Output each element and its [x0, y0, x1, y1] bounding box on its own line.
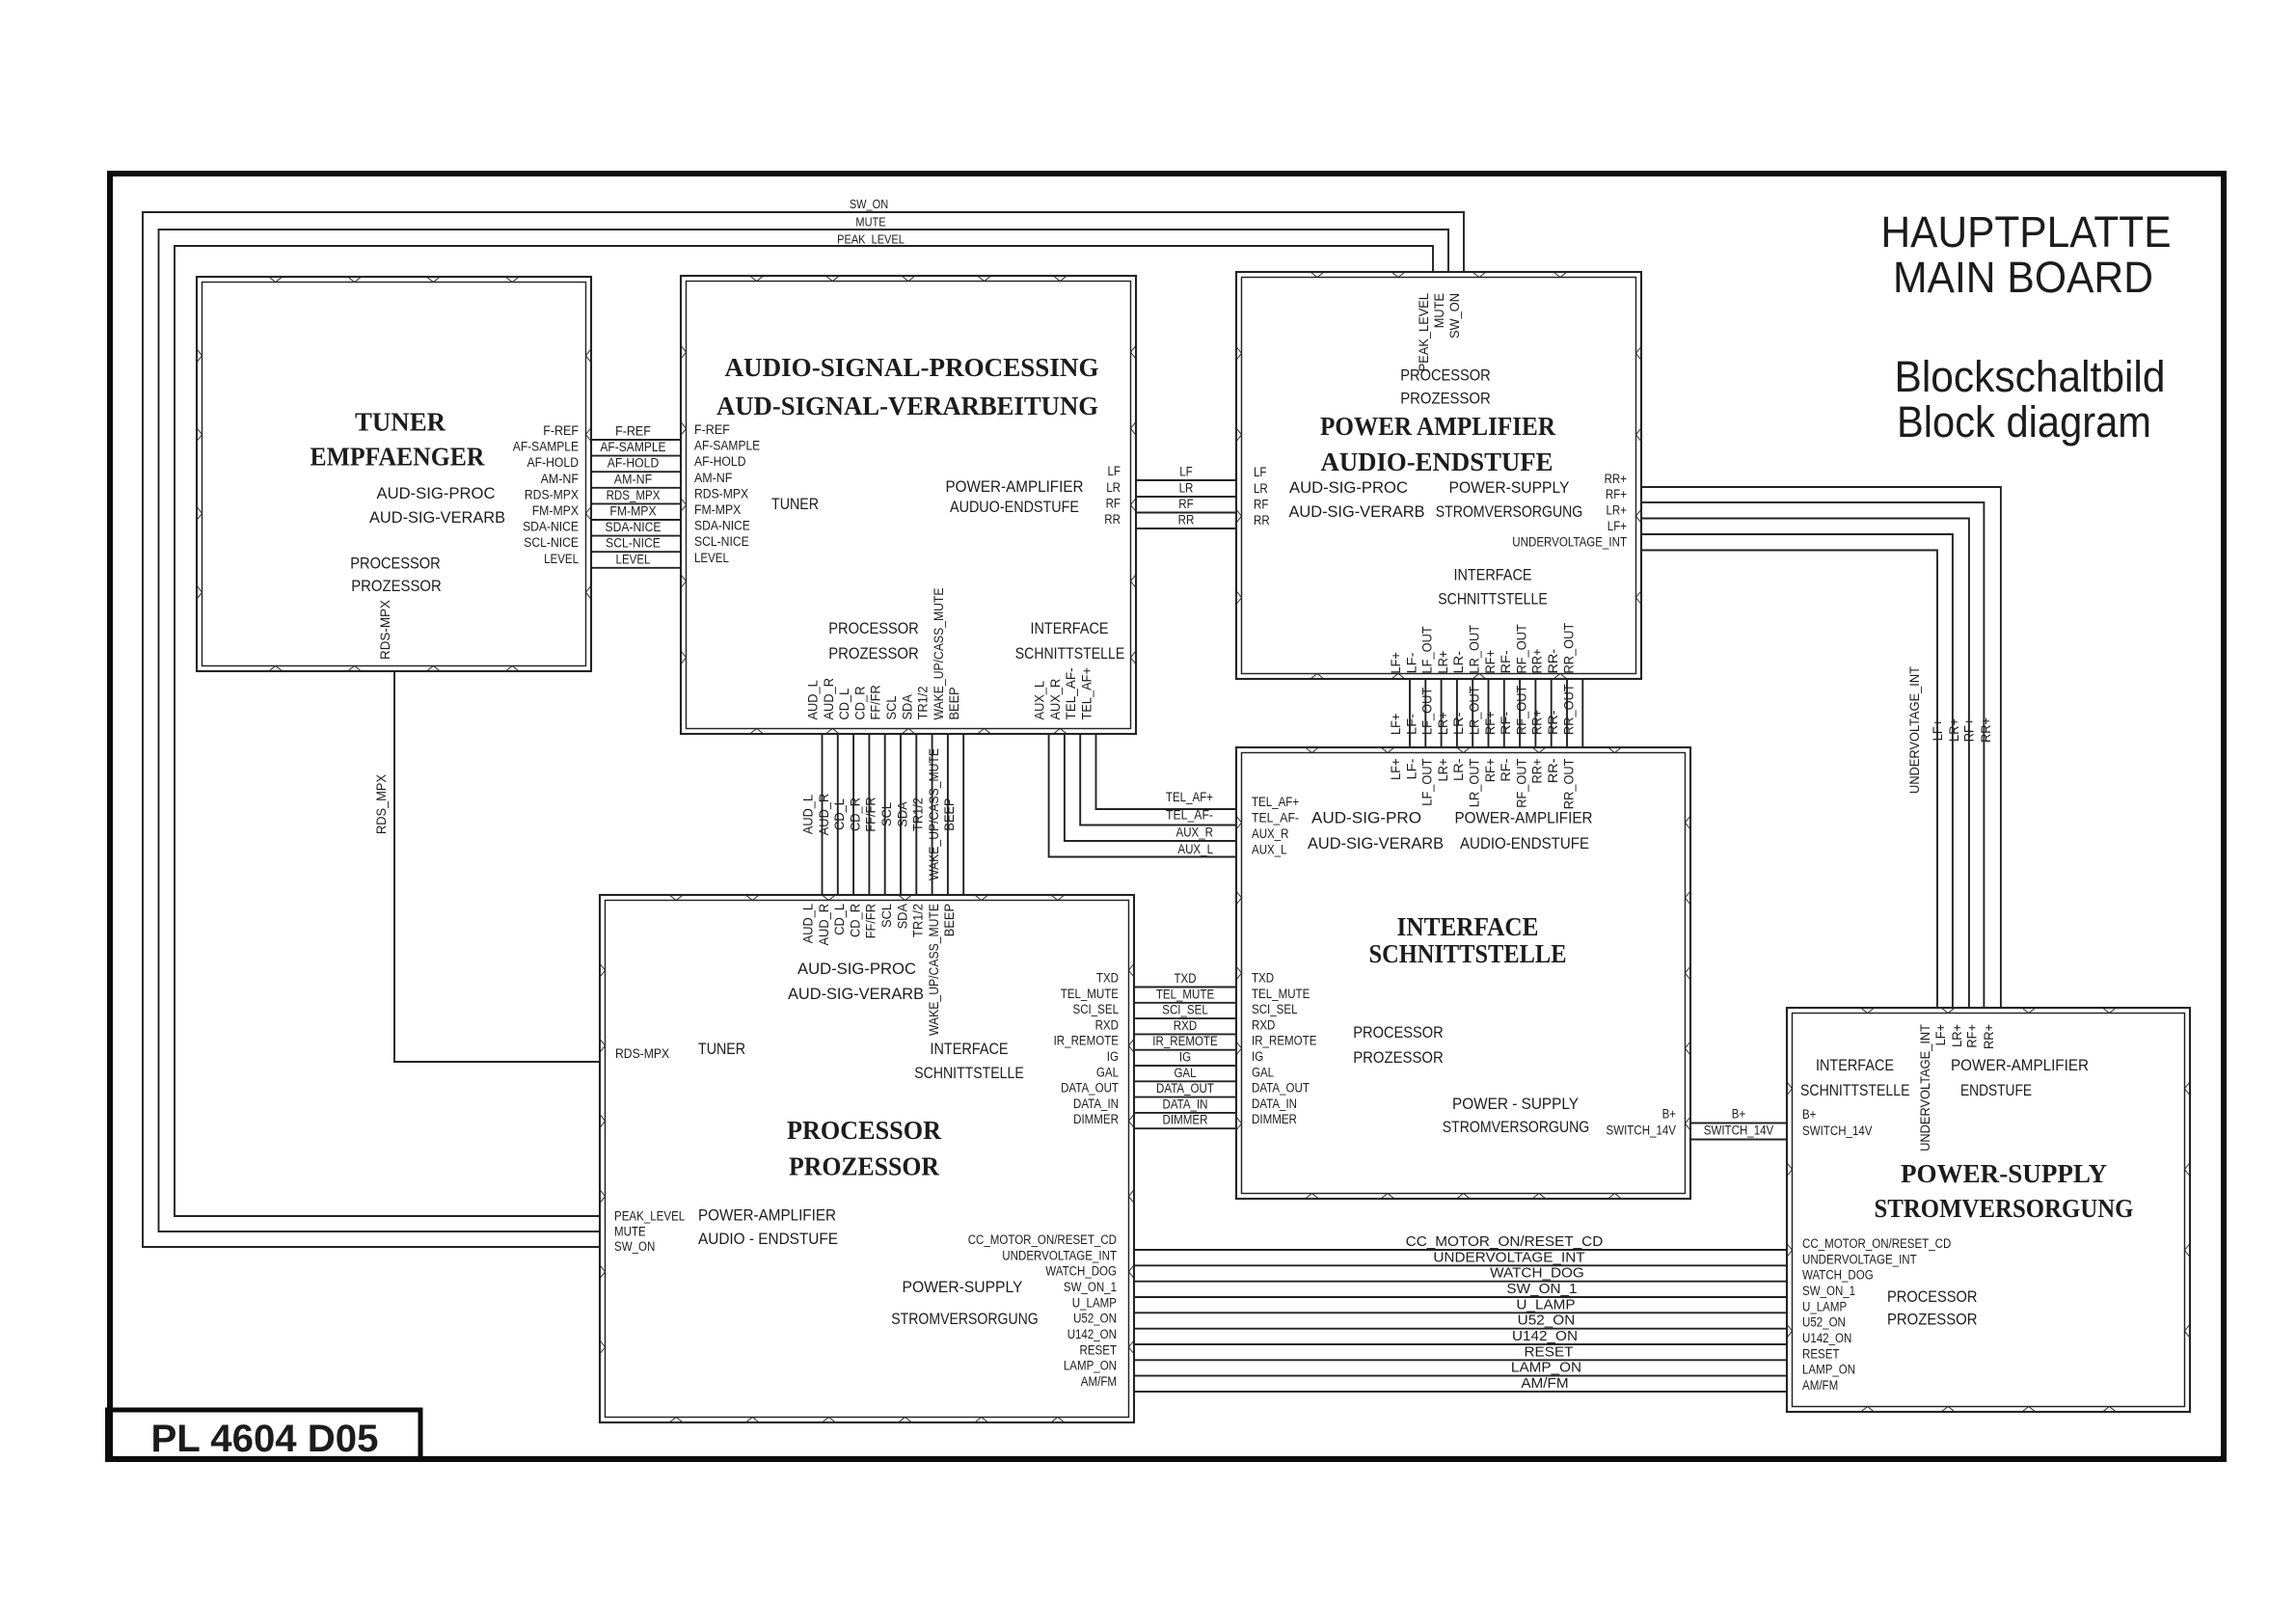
- block POWER AMPLIFIER / AUDIO-ENDSTUFE: inner border: [1242, 278, 1636, 674]
- svg-text:SCL-NICE: SCL-NICE: [694, 534, 749, 549]
- svg-text:RF_OUT: RF_OUT: [1514, 686, 1528, 735]
- wire LF (AUDIO-SIGNAL-PROCESSING to POWER AMPLIFIER): [1108, 464, 1267, 480]
- svg-text:LF_OUT: LF_OUT: [1420, 759, 1435, 806]
- svg-text:PROZESSOR: PROZESSOR: [789, 1152, 939, 1181]
- svg-text:TEL_AF+: TEL_AF+: [1252, 795, 1299, 809]
- wire RR_OUT (POWER AMPLIFIER to INTERFACE): [1561, 623, 1582, 809]
- svg-text:AUX_L: AUX_L: [1252, 843, 1287, 857]
- svg-text:RF-: RF-: [1499, 712, 1513, 735]
- block TUNER / EMPFAENGER: outer border: [197, 277, 591, 671]
- svg-text:POWER-SUPPLY: POWER-SUPPLY: [903, 1278, 1023, 1296]
- wire AUD_L (AUDIO-SIGNAL-PROCESSING to PROCESSOR): [801, 680, 823, 944]
- svg-text:SCI_SEL: SCI_SEL: [1162, 1003, 1208, 1017]
- wire U_LAMP (PROCESSOR to POWER-SUPPLY): [1072, 1295, 1847, 1313]
- wire GAL (PROCESSOR to INTERFACE): [1096, 1065, 1275, 1081]
- svg-text:LR-: LR-: [1451, 651, 1466, 674]
- svg-text:AUDIO-ENDSTUFE: AUDIO-ENDSTUFE: [1460, 834, 1589, 853]
- svg-text:AUD-SIG-PROC: AUD-SIG-PROC: [377, 484, 496, 502]
- svg-text:AUD-SIG-VERARB: AUD-SIG-VERARB: [369, 508, 505, 527]
- svg-text:PROZESSOR: PROZESSOR: [1887, 1311, 1978, 1329]
- svg-text:SW_ON_1: SW_ON_1: [1802, 1284, 1855, 1298]
- svg-text:LAMP_ON: LAMP_ON: [1064, 1359, 1117, 1373]
- svg-text:STROMVERSORGUNG: STROMVERSORGUNG: [1443, 1118, 1590, 1136]
- svg-text:SCI_SEL: SCI_SEL: [1252, 1002, 1298, 1016]
- svg-text:RR-: RR-: [1546, 759, 1560, 784]
- svg-text:U52_ON: U52_ON: [1073, 1312, 1117, 1326]
- svg-text:AF-SAMPLE: AF-SAMPLE: [600, 440, 665, 454]
- svg-text:CD_R: CD_R: [852, 686, 867, 719]
- svg-text:POWER-AMPLIFIER: POWER-AMPLIFIER: [698, 1206, 836, 1225]
- svg-text:SDA-NICE: SDA-NICE: [523, 520, 579, 534]
- svg-text:LR_OUT: LR_OUT: [1468, 625, 1482, 674]
- svg-text:SCI_SEL: SCI_SEL: [1073, 1002, 1120, 1016]
- wire LF+ (POWER AMPLIFIER to POWER-SUPPLY): [1607, 519, 1953, 1045]
- svg-text:F-REF: F-REF: [615, 424, 651, 439]
- svg-text:AUD_R: AUD_R: [817, 904, 831, 946]
- svg-text:TXD: TXD: [1174, 971, 1196, 986]
- svg-text:LF+: LF+: [1607, 519, 1627, 533]
- svg-text:SCL: SCL: [879, 904, 894, 928]
- svg-text:LF-: LF-: [1404, 759, 1418, 780]
- svg-text:AUD-SIGNAL-VERARBEITUNG: AUD-SIGNAL-VERARBEITUNG: [716, 392, 1098, 420]
- svg-text:RR-: RR-: [1546, 649, 1560, 674]
- svg-text:SW_ON_1: SW_ON_1: [1506, 1281, 1577, 1297]
- wire RDS_MPX (TUNER to PROCESSOR): [374, 600, 669, 1062]
- svg-text:POWER-SUPPLY: POWER-SUPPLY: [1901, 1159, 2107, 1188]
- svg-text:DATA_OUT: DATA_OUT: [1156, 1081, 1214, 1096]
- svg-text:AM/FM: AM/FM: [1802, 1378, 1838, 1393]
- svg-text:AM/FM: AM/FM: [1081, 1374, 1117, 1389]
- svg-text:HAUPTPLATTE: HAUPTPLATTE: [1881, 207, 2172, 257]
- svg-text:LF-: LF-: [1404, 653, 1418, 674]
- wire LF- (POWER AMPLIFIER to INTERFACE): [1404, 653, 1425, 780]
- svg-text:AUD-SIG-VERARB: AUD-SIG-VERARB: [788, 985, 924, 1003]
- block INTERFACE / SCHNITTSTELLE: outer border: [1236, 747, 1690, 1199]
- svg-text:LR+: LR+: [1607, 503, 1628, 518]
- svg-text:SDA: SDA: [895, 801, 909, 826]
- svg-text:TR1/2: TR1/2: [911, 798, 926, 831]
- svg-text:RF-: RF-: [1499, 650, 1513, 673]
- svg-text:FM-MPX: FM-MPX: [609, 504, 656, 519]
- svg-text:SCL-NICE: SCL-NICE: [606, 536, 661, 551]
- svg-text:LF+: LF+: [1389, 713, 1403, 735]
- svg-text:U142_ON: U142_ON: [1067, 1327, 1117, 1341]
- block POWER-SUPPLY / STROMVERSORGUNG: border tick marks: [1787, 1008, 2190, 1412]
- svg-text:TR1/2: TR1/2: [911, 904, 926, 937]
- svg-text:LF+: LF+: [1933, 1024, 1948, 1046]
- svg-text:RF: RF: [1106, 497, 1121, 511]
- wire RDS_MPX (TUNER to AUDIO-SIGNAL-PROCESSING): [525, 486, 748, 503]
- wire BEEP (AUDIO-SIGNAL-PROCESSING to PROCESSOR): [942, 687, 963, 936]
- svg-text:RF+: RF+: [1483, 758, 1498, 782]
- svg-text:RF+: RF+: [1483, 650, 1498, 674]
- svg-text:U_LAMP: U_LAMP: [1516, 1296, 1575, 1313]
- svg-text:SDA-NICE: SDA-NICE: [606, 520, 662, 534]
- svg-text:LF: LF: [1179, 465, 1193, 479]
- svg-text:TEL_AF-: TEL_AF-: [1064, 667, 1078, 719]
- svg-text:DATA_OUT: DATA_OUT: [1061, 1081, 1119, 1096]
- svg-text:AF-HOLD: AF-HOLD: [694, 454, 746, 469]
- svg-text:LF-: LF-: [1404, 714, 1418, 735]
- svg-text:U142_ON: U142_ON: [1512, 1328, 1578, 1344]
- svg-text:WAKE_UP/CASS_MUTE: WAKE_UP/CASS_MUTE: [932, 588, 946, 720]
- wire RR+ (POWER AMPLIFIER to POWER-SUPPLY): [1605, 472, 2001, 1049]
- svg-text:INTERFACE: INTERFACE: [1454, 566, 1532, 584]
- svg-text:TEL_AF+: TEL_AF+: [1080, 667, 1094, 720]
- svg-text:TXD: TXD: [1096, 971, 1119, 986]
- svg-text:LR_OUT: LR_OUT: [1468, 759, 1482, 808]
- svg-text:WAKE_UP/CASS_MUTE: WAKE_UP/CASS_MUTE: [927, 748, 941, 880]
- wire RR (AUDIO-SIGNAL-PROCESSING to POWER AMPLIFIER): [1104, 512, 1270, 528]
- svg-text:AF-SAMPLE: AF-SAMPLE: [513, 440, 579, 454]
- wire FF/FR (AUDIO-SIGNAL-PROCESSING to PROCESSOR): [864, 685, 885, 938]
- wire RR+ (POWER AMPLIFIER to INTERFACE): [1530, 648, 1552, 783]
- svg-text:U52_ON: U52_ON: [1518, 1313, 1576, 1329]
- svg-text:RR+: RR+: [1605, 472, 1627, 486]
- svg-text:LEVEL: LEVEL: [544, 552, 579, 566]
- wire CC_MOTOR_ON/RESET_CD (PROCESSOR to POWER-SUPPLY): [968, 1232, 1952, 1251]
- svg-text:SCHNITTSTELLE: SCHNITTSTELLE: [1800, 1081, 1910, 1099]
- svg-text:UNDERVOLTAGE_INT: UNDERVOLTAGE_INT: [1512, 535, 1627, 550]
- svg-text:DIMMER: DIMMER: [1252, 1112, 1297, 1126]
- wire TEL_MUTE (PROCESSOR to INTERFACE): [1061, 987, 1310, 1003]
- svg-text:SCHNITTSTELLE: SCHNITTSTELLE: [1438, 590, 1548, 609]
- svg-text:SWITCH_14V: SWITCH_14V: [1704, 1123, 1774, 1138]
- wire MUTE (bus PROCESSOR / POWER AMPLIFIER): [159, 216, 1449, 1239]
- svg-text:F-REF: F-REF: [543, 423, 579, 438]
- svg-text:TEL_AF-: TEL_AF-: [1252, 811, 1299, 826]
- svg-text:TXD: TXD: [1252, 971, 1274, 986]
- svg-text:U_LAMP: U_LAMP: [1802, 1299, 1847, 1313]
- block AUDIO-SIGNAL-PROCESSING: inner border: [687, 282, 1131, 729]
- wire AF-HOLD (TUNER to AUDIO-SIGNAL-PROCESSING): [527, 454, 746, 472]
- svg-text:RXD: RXD: [1174, 1018, 1198, 1033]
- svg-text:IG: IG: [1179, 1050, 1191, 1065]
- svg-text:RR_OUT: RR_OUT: [1561, 684, 1576, 735]
- svg-text:PROCESSOR: PROCESSOR: [1400, 366, 1491, 385]
- svg-text:AUX_R: AUX_R: [1048, 678, 1063, 719]
- svg-text:SCHNITTSTELLE: SCHNITTSTELLE: [1015, 644, 1125, 663]
- wire LR- (POWER AMPLIFIER to INTERFACE): [1451, 651, 1472, 781]
- svg-text:RDS-MPX: RDS-MPX: [615, 1046, 669, 1061]
- svg-text:FM-MPX: FM-MPX: [694, 502, 741, 517]
- svg-text:PROZESSOR: PROZESSOR: [828, 644, 919, 663]
- svg-text:LR+: LR+: [1950, 1024, 1964, 1047]
- svg-text:AUD_L: AUD_L: [801, 794, 816, 834]
- wire AM/FM (PROCESSOR to POWER-SUPPLY): [1081, 1374, 1838, 1393]
- svg-text:PEAK_LEVEL: PEAK_LEVEL: [1417, 293, 1431, 372]
- wire AM-NF (TUNER to AUDIO-SIGNAL-PROCESSING): [541, 471, 733, 488]
- svg-text:INTERFACE: INTERFACE: [931, 1040, 1009, 1058]
- svg-text:AUD-SIG-PROC: AUD-SIG-PROC: [797, 960, 916, 978]
- svg-text:SCHNITTSTELLE: SCHNITTSTELLE: [914, 1064, 1024, 1082]
- wire DATA_IN (PROCESSOR to INTERFACE): [1073, 1096, 1297, 1113]
- svg-text:LAMP_ON: LAMP_ON: [1511, 1360, 1581, 1376]
- svg-text:LR+: LR+: [1947, 718, 1961, 742]
- svg-text:POWER-AMPLIFIER: POWER-AMPLIFIER: [946, 477, 1084, 496]
- svg-text:IR_REMOTE: IR_REMOTE: [1152, 1034, 1217, 1048]
- wire SWITCH_14V (INTERFACE to POWER-SUPPLY): [1607, 1123, 1873, 1140]
- wire RF+ (POWER AMPLIFIER to INTERFACE): [1483, 650, 1504, 782]
- wire SCL-NICE (TUNER to AUDIO-SIGNAL-PROCESSING): [524, 534, 748, 552]
- svg-text:LF: LF: [1254, 465, 1267, 479]
- svg-text:GAL: GAL: [1252, 1065, 1275, 1079]
- svg-text:AUDUO-ENDSTUFE: AUDUO-ENDSTUFE: [950, 498, 1079, 516]
- svg-text:RDS-MPX: RDS-MPX: [525, 487, 579, 501]
- svg-text:AUD_R: AUD_R: [822, 678, 836, 720]
- svg-text:SDA: SDA: [895, 904, 909, 929]
- svg-text:UNDERVOLTAGE_INT: UNDERVOLTAGE_INT: [1002, 1248, 1117, 1262]
- wire U142_ON (PROCESSOR to POWER-SUPPLY): [1067, 1327, 1852, 1345]
- svg-text:AUX_R: AUX_R: [1252, 826, 1289, 841]
- svg-text:POWER-AMPLIFIER: POWER-AMPLIFIER: [1951, 1056, 2089, 1074]
- svg-text:AUD-SIG-PROC: AUD-SIG-PROC: [1289, 478, 1408, 497]
- svg-text:RR+: RR+: [1530, 648, 1545, 673]
- svg-text:DIMMER: DIMMER: [1073, 1112, 1119, 1126]
- svg-text:UNDERVOLTAGE_INT: UNDERVOLTAGE_INT: [1802, 1252, 1917, 1266]
- svg-text:POWER-SUPPLY: POWER-SUPPLY: [1449, 478, 1570, 497]
- wire AUX_L (AUDIO-SIGNAL-PROCESSING to INTERFACE): [1033, 680, 1287, 856]
- svg-text:CC_MOTOR_ON/RESET_CD: CC_MOTOR_ON/RESET_CD: [968, 1232, 1118, 1247]
- wire TR1/2 (AUDIO-SIGNAL-PROCESSING to PROCESSOR): [911, 687, 932, 938]
- block PROCESSOR / PROZESSOR: border tick marks: [600, 895, 1134, 1422]
- svg-text:STROMVERSORGUNG: STROMVERSORGUNG: [891, 1310, 1039, 1328]
- svg-text:Block diagram: Block diagram: [1897, 397, 2151, 447]
- wire B+ (INTERFACE to POWER-SUPPLY): [1662, 1107, 1817, 1123]
- svg-text:BEEP: BEEP: [947, 687, 961, 719]
- wire PEAK_LEVEL (bus PROCESSOR / POWER AMPLIFIER): [175, 233, 1433, 1224]
- wire CD_R (AUDIO-SIGNAL-PROCESSING to PROCESSOR): [848, 686, 869, 937]
- wire LF_OUT (POWER AMPLIFIER to INTERFACE): [1420, 626, 1442, 805]
- svg-text:RR+: RR+: [1982, 1024, 1996, 1049]
- svg-text:AUD-SIG-VERARB: AUD-SIG-VERARB: [1289, 502, 1425, 521]
- block TUNER: labels: [311, 408, 506, 596]
- wire DIMMER (PROCESSOR to INTERFACE): [1073, 1112, 1297, 1128]
- svg-text:AM-NF: AM-NF: [541, 472, 579, 486]
- wire RF+ (POWER AMPLIFIER to POWER-SUPPLY): [1606, 487, 1984, 1048]
- svg-text:RDS-MPX: RDS-MPX: [378, 600, 392, 660]
- svg-text:CD_R: CD_R: [848, 904, 862, 937]
- svg-text:CD_L: CD_L: [837, 688, 851, 719]
- svg-text:TR1/2: TR1/2: [916, 687, 931, 720]
- svg-text:RR+: RR+: [1530, 758, 1545, 783]
- block INTERFACE: labels: [1308, 809, 1593, 1137]
- svg-text:LR+: LR+: [1436, 712, 1450, 735]
- wire SW_ON (bus PROCESSOR / POWER AMPLIFIER): [143, 198, 1464, 1254]
- svg-text:AUD_L: AUD_L: [801, 904, 816, 944]
- svg-text:FF/FR: FF/FR: [864, 904, 878, 939]
- svg-text:TEL_MUTE: TEL_MUTE: [1061, 987, 1119, 1001]
- svg-text:UNDERVOLTAGE_INT: UNDERVOLTAGE_INT: [1433, 1249, 1584, 1265]
- svg-text:MUTE: MUTE: [1432, 293, 1446, 328]
- svg-text:MUTE: MUTE: [855, 216, 885, 230]
- wire TXD (PROCESSOR to INTERFACE): [1096, 971, 1274, 988]
- block TUNER / EMPFAENGER: inner border: [203, 283, 586, 666]
- svg-text:RF: RF: [1178, 497, 1193, 511]
- wire RXD (PROCESSOR to INTERFACE): [1095, 1017, 1276, 1034]
- wire LF+ (POWER AMPLIFIER to INTERFACE): [1389, 652, 1410, 780]
- wire AUX_R (AUDIO-SIGNAL-PROCESSING to INTERFACE): [1048, 678, 1289, 841]
- svg-text:LR: LR: [1254, 481, 1268, 496]
- svg-text:RR: RR: [1178, 513, 1195, 528]
- svg-text:IR_REMOTE: IR_REMOTE: [1054, 1034, 1119, 1048]
- wire F-REF (TUNER to AUDIO-SIGNAL-PROCESSING): [543, 422, 730, 440]
- svg-text:GAL: GAL: [1096, 1065, 1120, 1079]
- block AUDIO-SIGNAL-PROCESSING: labels: [716, 353, 1124, 663]
- svg-text:LR-: LR-: [1451, 713, 1466, 736]
- svg-text:RR+: RR+: [1979, 717, 1993, 743]
- block POWER AMPLIFIER / AUDIO-ENDSTUFE: border tick marks: [1236, 272, 1641, 679]
- svg-text:SWITCH_14V: SWITCH_14V: [1607, 1123, 1677, 1138]
- svg-text:FF/FR: FF/FR: [869, 685, 883, 720]
- svg-text:RDS_MPX: RDS_MPX: [374, 774, 389, 834]
- wire U52_ON (PROCESSOR to POWER-SUPPLY): [1073, 1312, 1846, 1330]
- svg-text:IG: IG: [1107, 1049, 1119, 1064]
- svg-text:AUD_R: AUD_R: [817, 794, 831, 836]
- svg-text:INTERFACE: INTERFACE: [1816, 1056, 1894, 1074]
- svg-text:LEVEL: LEVEL: [616, 552, 651, 566]
- svg-text:PROZESSOR: PROZESSOR: [1353, 1048, 1444, 1067]
- wire IR_REMOTE (PROCESSOR to INTERFACE): [1054, 1034, 1317, 1050]
- wire FM-MPX (TUNER to AUDIO-SIGNAL-PROCESSING): [532, 502, 742, 520]
- wire SDA (AUDIO-SIGNAL-PROCESSING to PROCESSOR): [895, 694, 916, 929]
- svg-text:RR_OUT: RR_OUT: [1561, 759, 1576, 810]
- svg-text:SWITCH_14V: SWITCH_14V: [1802, 1123, 1873, 1138]
- wire WAKE_UP/CASS_MUTE (AUDIO-SIGNAL-PROCESSING to PROCESSOR): [927, 588, 948, 1037]
- svg-text:LF_OUT: LF_OUT: [1420, 688, 1435, 735]
- svg-text:RDS-MPX: RDS-MPX: [694, 486, 748, 501]
- svg-text:RESET: RESET: [1802, 1346, 1840, 1361]
- svg-text:RF-: RF-: [1499, 759, 1513, 782]
- svg-text:PROCESSOR: PROCESSOR: [1353, 1023, 1444, 1042]
- svg-text:RXD: RXD: [1095, 1017, 1120, 1032]
- svg-text:LEVEL: LEVEL: [694, 551, 729, 565]
- svg-text:RR: RR: [1104, 512, 1121, 527]
- svg-text:SW_ON: SW_ON: [1447, 293, 1462, 338]
- svg-text:RF_OUT: RF_OUT: [1514, 759, 1528, 808]
- svg-text:RR: RR: [1254, 513, 1270, 528]
- wire LR_OUT (POWER AMPLIFIER to INTERFACE): [1468, 625, 1489, 807]
- svg-text:INTERFACE: INTERFACE: [1031, 619, 1109, 637]
- wire UNDERVOLTAGE_INT (PROCESSOR to POWER-SUPPLY): [1002, 1248, 1916, 1266]
- svg-text:RR+: RR+: [1530, 710, 1545, 735]
- block PROCESSOR / PROZESSOR: inner border: [606, 901, 1129, 1418]
- block INTERFACE / SCHNITTSTELLE: border tick marks: [1236, 747, 1690, 1199]
- svg-text:AUD-SIG-PRO: AUD-SIG-PRO: [1311, 809, 1421, 827]
- svg-text:POWER - SUPPLY: POWER - SUPPLY: [1452, 1095, 1579, 1113]
- block POWER AMPLIFIER: labels: [1289, 366, 1583, 609]
- svg-text:LR-: LR-: [1451, 759, 1466, 782]
- svg-text:AUDIO-SIGNAL-PROCESSING: AUDIO-SIGNAL-PROCESSING: [725, 353, 1099, 382]
- svg-text:GAL: GAL: [1174, 1066, 1197, 1080]
- block TUNER / EMPFAENGER: border tick marks: [197, 277, 591, 671]
- svg-text:LF_OUT: LF_OUT: [1420, 626, 1435, 673]
- svg-text:TUNER: TUNER: [355, 408, 446, 437]
- svg-text:SCL: SCL: [884, 695, 899, 719]
- block AUDIO-SIGNAL-PROCESSING: border tick marks: [681, 276, 1136, 734]
- wire RF_OUT (POWER AMPLIFIER to INTERFACE): [1514, 624, 1535, 808]
- svg-text:WATCH_DOG: WATCH_DOG: [1045, 1264, 1117, 1279]
- svg-text:FM-MPX: FM-MPX: [532, 503, 579, 518]
- svg-text:SW_ON: SW_ON: [850, 198, 888, 211]
- svg-text:TEL_MUTE: TEL_MUTE: [1252, 987, 1310, 1001]
- svg-text:EMPFAENGER: EMPFAENGER: [311, 442, 485, 471]
- svg-text:BEEP: BEEP: [942, 798, 957, 830]
- svg-text:RF+: RF+: [1483, 711, 1498, 735]
- svg-text:CD_R: CD_R: [848, 798, 862, 831]
- svg-text:PEAK_LEVEL: PEAK_LEVEL: [614, 1209, 686, 1224]
- svg-text:WATCH_DOG: WATCH_DOG: [1490, 1265, 1584, 1282]
- svg-text:F-REF: F-REF: [694, 422, 730, 437]
- block POWER-SUPPLY: labels: [1800, 1056, 2134, 1329]
- drawing frame border: [110, 174, 2224, 1459]
- svg-text:AF-SAMPLE: AF-SAMPLE: [694, 439, 760, 453]
- svg-text:POWER-AMPLIFIER: POWER-AMPLIFIER: [1455, 809, 1593, 827]
- svg-text:TEL_AF-: TEL_AF-: [1166, 807, 1213, 822]
- wire UNDERVOLTAGE_INT (POWER AMPLIFIER to POWER-SUPPLY): [1512, 535, 1937, 1151]
- svg-text:SW_ON: SW_ON: [614, 1239, 655, 1254]
- svg-text:RDS_MPX: RDS_MPX: [607, 488, 661, 502]
- svg-text:AM-NF: AM-NF: [694, 471, 732, 485]
- svg-text:AUDIO - ENDSTUFE: AUDIO - ENDSTUFE: [698, 1230, 838, 1248]
- svg-text:DATA_IN: DATA_IN: [1163, 1096, 1208, 1111]
- svg-text:POWER AMPLIFIER: POWER AMPLIFIER: [1320, 412, 1555, 441]
- svg-text:LF: LF: [1108, 464, 1121, 478]
- svg-text:INTERFACE: INTERFACE: [1397, 912, 1539, 941]
- svg-text:CD_L: CD_L: [832, 798, 847, 830]
- block AUDIO-SIGNAL-PROCESSING: outer border: [681, 276, 1136, 734]
- svg-text:AUX_R: AUX_R: [1176, 826, 1214, 840]
- drawing number box PL 4604 D05: [108, 1410, 421, 1460]
- svg-text:UNDERVOLTAGE_INT: UNDERVOLTAGE_INT: [1907, 666, 1922, 794]
- wire SCL (AUDIO-SIGNAL-PROCESSING to PROCESSOR): [879, 695, 901, 928]
- svg-text:RR-: RR-: [1546, 710, 1560, 735]
- svg-text:RF+: RF+: [1606, 487, 1627, 501]
- svg-text:DATA_OUT: DATA_OUT: [1252, 1081, 1310, 1096]
- svg-text:PEAK_LEVEL: PEAK_LEVEL: [837, 233, 905, 247]
- svg-text:CC_MOTOR_ON/RESET_CD: CC_MOTOR_ON/RESET_CD: [1802, 1236, 1952, 1251]
- wire CD_L (AUDIO-SIGNAL-PROCESSING to PROCESSOR): [832, 688, 853, 935]
- svg-text:MAIN BOARD: MAIN BOARD: [1893, 253, 2153, 302]
- svg-text:AF-HOLD: AF-HOLD: [608, 456, 660, 471]
- svg-text:U52_ON: U52_ON: [1802, 1315, 1846, 1330]
- svg-text:DIMMER: DIMMER: [1163, 1113, 1208, 1127]
- svg-text:IR_REMOTE: IR_REMOTE: [1252, 1034, 1316, 1048]
- svg-text:PROZESSOR: PROZESSOR: [1400, 390, 1491, 408]
- block PROCESSOR: labels: [698, 960, 1039, 1328]
- svg-text:PROCESSOR: PROCESSOR: [828, 619, 919, 637]
- wire LR+ (POWER AMPLIFIER to INTERFACE): [1436, 651, 1457, 782]
- wire SCI_SEL (PROCESSOR to INTERFACE): [1073, 1002, 1298, 1018]
- svg-text:Blockschaltbild: Blockschaltbild: [1895, 352, 2166, 401]
- svg-text:AF-HOLD: AF-HOLD: [527, 455, 580, 470]
- block POWER-SUPPLY / STROMVERSORGUNG: outer border: [1787, 1008, 2190, 1412]
- svg-text:LR_OUT: LR_OUT: [1468, 686, 1482, 735]
- svg-text:ENDSTUFE: ENDSTUFE: [1960, 1081, 2032, 1099]
- wire LAMP_ON (PROCESSOR to POWER-SUPPLY): [1064, 1359, 1855, 1377]
- svg-text:AUDIO-ENDSTUFE: AUDIO-ENDSTUFE: [1321, 447, 1553, 476]
- svg-text:SCL: SCL: [879, 802, 894, 826]
- wire LR (AUDIO-SIGNAL-PROCESSING to POWER AMPLIFIER): [1106, 480, 1268, 497]
- svg-text:DATA_IN: DATA_IN: [1073, 1096, 1119, 1111]
- block POWER-SUPPLY / STROMVERSORGUNG: inner border: [1793, 1014, 2185, 1407]
- svg-text:B+: B+: [1732, 1107, 1745, 1122]
- svg-text:U_LAMP: U_LAMP: [1072, 1295, 1117, 1310]
- svg-text:CC_MOTOR_ON/RESET_CD: CC_MOTOR_ON/RESET_CD: [1406, 1233, 1604, 1250]
- svg-text:AM-NF: AM-NF: [614, 472, 652, 486]
- svg-text:STROMVERSORGUNG: STROMVERSORGUNG: [1875, 1194, 2134, 1223]
- svg-text:IG: IG: [1252, 1049, 1263, 1064]
